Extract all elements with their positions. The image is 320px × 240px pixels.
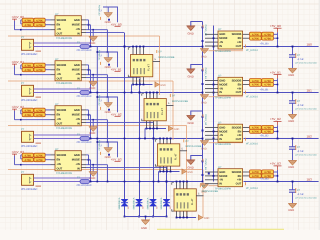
svg-text:-IN: -IN xyxy=(219,41,223,44)
junction xyxy=(202,181,204,183)
wire bottom bus xyxy=(160,171,180,173)
wire net B3 main horizontal bus xyxy=(34,181,203,183)
svg-text:IN: IN xyxy=(219,45,222,48)
wire IC row1 to row3 xyxy=(86,109,89,111)
svg-text:4.70K: 4.70K xyxy=(24,69,31,72)
svg-text:GND: GND xyxy=(288,209,294,212)
pins U3 xyxy=(51,109,56,111)
wire drop to next bus xyxy=(158,172,160,182)
pins U7 right xyxy=(243,127,250,129)
inductor ferrite FB4 xyxy=(80,180,90,184)
svg-text:OUT: OUT xyxy=(57,123,63,126)
svg-text:1B3: 1B3 xyxy=(307,177,313,181)
resistor R8 xyxy=(34,68,45,72)
wire opto upper pin xyxy=(34,134,91,136)
svg-text:PGND_B1: PGND_B1 xyxy=(204,68,207,80)
svg-text:MODE: MODE xyxy=(72,114,80,117)
resistor R32 xyxy=(262,174,274,178)
svg-text:GND: GND xyxy=(201,101,207,104)
svg-text:EN: EN xyxy=(57,24,61,27)
wire net B2 main horizontal bus xyxy=(34,138,203,140)
svg-text:4.70K: 4.70K xyxy=(252,84,259,87)
wire IC row1 to row3 xyxy=(86,154,89,156)
wire from port down to row3 line xyxy=(14,111,16,120)
svg-text:TPLM4200PA: TPLM4200PA xyxy=(56,82,72,85)
svg-text:4.70K: 4.70K xyxy=(36,24,43,27)
svg-text:+IN: +IN xyxy=(237,179,241,182)
svg-text:-IN: -IN xyxy=(219,179,223,182)
svg-text:IN: IN xyxy=(219,138,222,141)
svg-text:SMBJ24CA: SMBJ24CA xyxy=(160,197,163,209)
resistor R30 xyxy=(262,170,274,174)
svg-text:#PLU2014AC: #PLU2014AC xyxy=(21,188,37,191)
wire harness PGND0 horizontal xyxy=(8,35,160,37)
resistor R24 xyxy=(262,82,274,86)
svg-text:4.7uF: 4.7uF xyxy=(298,104,305,107)
wire L branch 3 xyxy=(97,97,117,112)
svg-text:TPU44.100PA: TPU44.100PA xyxy=(215,188,232,191)
svg-text:GND: GND xyxy=(188,75,194,79)
wire vertical net V2 xyxy=(139,79,141,217)
svg-text:GND: GND xyxy=(219,33,225,36)
wire net B1 main horizontal bus xyxy=(34,92,203,94)
svg-text:+5V_B3: +5V_B3 xyxy=(111,157,122,161)
pin square loop 2 xyxy=(108,64,110,66)
op-amp regulator U5 xyxy=(218,31,243,49)
wire drop to next bus xyxy=(144,129,146,139)
svg-text:MODE: MODE xyxy=(72,24,80,27)
ground sym tap 2 xyxy=(186,68,195,70)
svg-text:#FLU2014AC: #FLU2014AC xyxy=(77,95,92,98)
wire bottom bus xyxy=(133,84,153,86)
pins U6 right xyxy=(243,80,250,82)
svg-text:FL-4T: FL-4T xyxy=(175,153,178,160)
svg-text:GND: GND xyxy=(201,55,207,58)
svg-text:TPLM4200PA: TPLM4200PA xyxy=(56,37,72,40)
resistor R28 xyxy=(262,129,274,133)
ground sym below bus 1 xyxy=(200,48,209,50)
svg-text:P?: P? xyxy=(21,171,25,174)
ground sym harness 4 xyxy=(199,215,204,220)
ground sym C4 xyxy=(288,202,297,204)
wire vertical net V4 xyxy=(166,167,168,217)
ground sym harness 1 xyxy=(155,82,160,87)
bracket marks U10 xyxy=(142,94,144,96)
wire row3 drop to L branch xyxy=(107,30,109,52)
ground sym U2 xyxy=(89,81,98,83)
wire IC row3 long xyxy=(86,29,108,31)
op-amp regulator U6 xyxy=(218,77,243,95)
svg-text:#F_U2014: #F_U2014 xyxy=(246,96,258,99)
svg-text:U4P 16V50 R0.04 S0M 0805: U4P 16V50 R0.04 S0M 0805 xyxy=(295,108,317,111)
svg-text:SMBJ24CA: SMBJ24CA xyxy=(133,197,136,209)
wire harness PGND2 horizontal xyxy=(8,125,187,127)
wire harness right 1 xyxy=(209,50,244,52)
svg-text:+IN: +IN xyxy=(76,118,80,121)
resistor R16 xyxy=(34,158,45,162)
resistor R9 xyxy=(22,108,33,112)
svg-text:IN: IN xyxy=(77,168,80,171)
svg-text:+IN: +IN xyxy=(237,87,241,90)
svg-text:SDODB: SDODB xyxy=(232,171,242,174)
wire harness PGND3 horizontal xyxy=(8,169,203,171)
ground sym harness 3 xyxy=(182,169,187,174)
wire IC row3 long xyxy=(86,74,108,76)
svg-text:SMBJ24CA: SMBJ24CA xyxy=(147,197,150,209)
svg-text:+IN: +IN xyxy=(57,163,61,166)
svg-text:+5V_B1: +5V_B1 xyxy=(111,67,122,71)
svg-text:#PLU2014AC: #PLU2014AC xyxy=(21,53,37,56)
inductor ferrite FB2 xyxy=(80,91,90,95)
svg-text:U?: U? xyxy=(218,121,222,124)
wire gnd tap loop 2 xyxy=(191,65,203,69)
wire diode bottom bus xyxy=(125,216,167,218)
svg-text:GND: GND xyxy=(174,128,180,131)
wire net B0 right segment to edge xyxy=(244,46,320,48)
svg-text:TPU44.100PA: TPU44.100PA xyxy=(215,96,232,99)
svg-text:PGND_B1: PGND_B1 xyxy=(97,50,100,61)
pin square loop 1 xyxy=(108,19,110,21)
svg-text:4.70K: 4.70K xyxy=(36,65,43,68)
ground sym C2 xyxy=(288,113,297,115)
ground sym harness 2 xyxy=(169,126,174,131)
pins U6 left xyxy=(205,80,218,82)
pins U12 top xyxy=(176,182,178,189)
svg-text:P?: P? xyxy=(21,82,25,85)
wire row4 feed to vertical net V1 xyxy=(86,31,125,33)
ground sym loop 3 xyxy=(104,102,113,104)
op-amp regulator U1 xyxy=(55,16,81,36)
wire bottom bus xyxy=(177,217,197,219)
pins U9 bottom xyxy=(132,77,134,85)
op-amp regulator U7 xyxy=(218,124,243,142)
svg-text:FL-4T: FL-4T xyxy=(161,108,164,115)
wire opto lower pin (bus start) xyxy=(34,46,81,48)
wire harness right 4 xyxy=(209,185,244,187)
wire IC row2 to vertical xyxy=(86,24,91,26)
resistor R6 xyxy=(34,63,45,67)
wire vertical x=90.5 block 1 xyxy=(90,70,92,93)
svg-text:SDODB: SDODB xyxy=(232,126,242,129)
resistor R22 xyxy=(262,79,274,83)
junction dots top pins xyxy=(132,46,134,48)
wire opto lower pin (bus start) xyxy=(34,181,81,183)
svg-text:PGND_B0: PGND_B0 xyxy=(97,5,100,16)
svg-text:GND: GND xyxy=(219,126,225,129)
op-amp regulator U4 xyxy=(55,151,81,171)
bracket marks U12 xyxy=(172,183,174,185)
wire resistor rows to IC xyxy=(45,64,50,66)
svg-text:GND: GND xyxy=(188,32,194,36)
svg-text:OUT: OUT xyxy=(57,78,63,81)
svg-text:IN: IN xyxy=(219,91,222,94)
wire L branch 2 xyxy=(97,52,117,67)
wire net B0 main horizontal bus xyxy=(34,46,203,48)
ground sym U1 xyxy=(89,36,98,38)
junction dots top pins xyxy=(176,181,178,183)
svg-text:U?: U? xyxy=(55,58,59,61)
resistor R17 xyxy=(250,32,262,36)
wire vertical net VL x=97.3 xyxy=(96,47,98,182)
wire gnd stem xyxy=(92,30,94,37)
svg-text:+IN: +IN xyxy=(57,118,61,121)
svg-text:+5V_B2: +5V_B2 xyxy=(270,117,281,121)
svg-text:4.70K: 4.70K xyxy=(264,37,271,40)
svg-text:4.70K: 4.70K xyxy=(24,114,31,117)
svg-text:#PLU2014AC: #PLU2014AC xyxy=(21,99,37,102)
svg-text:GND: GND xyxy=(160,84,166,87)
svg-text:GND: GND xyxy=(288,74,294,77)
resistor R26 xyxy=(262,125,274,129)
capacitor C2 xyxy=(292,93,294,101)
pin squares tap 1 xyxy=(202,26,204,28)
svg-text:4.7uF: 4.7uF xyxy=(298,58,305,61)
inductor ferrite FB1 xyxy=(80,45,90,49)
svg-text:SDODB: SDODB xyxy=(57,64,67,67)
svg-text:+5V_B2: +5V_B2 xyxy=(260,135,270,138)
svg-text:GND: GND xyxy=(89,132,95,135)
svg-text:TPLM4200PA: TPLM4200PA xyxy=(56,172,72,175)
highlight band bottom xyxy=(157,229,284,230)
wire resistor rows to IC xyxy=(45,154,50,156)
svg-text:4.70K: 4.70K xyxy=(24,24,31,27)
svg-text:#F_U2014: #F_U2014 xyxy=(246,49,258,52)
junction dots top pins xyxy=(146,92,148,94)
svg-text:IN: IN xyxy=(219,183,222,186)
resistor R10 xyxy=(34,108,45,112)
wire gnd tap loop 4 xyxy=(191,156,203,160)
svg-text:EN: EN xyxy=(57,69,61,72)
pins U12 bottom xyxy=(176,211,178,217)
wire harness PGND0 vertical xyxy=(159,36,161,95)
resistor R11 xyxy=(22,113,33,117)
pin 5 right U10 xyxy=(166,105,174,107)
pin 5 right U12 xyxy=(196,195,204,197)
svg-text:+5V_B3: +5V_B3 xyxy=(260,178,270,181)
svg-text:GND: GND xyxy=(105,21,111,24)
svg-text:U?: U? xyxy=(55,103,59,106)
wire harness PGND1 horizontal xyxy=(8,80,173,82)
resistor R25 xyxy=(250,125,262,129)
svg-text:OUT: OUT xyxy=(236,138,242,141)
op-amp regulator U8 xyxy=(218,169,243,187)
transistor opto P2 xyxy=(22,85,34,96)
wire opto lower pin (bus start) xyxy=(34,138,81,140)
svg-text:+IN: +IN xyxy=(76,73,80,76)
svg-text:4.70K: 4.70K xyxy=(36,114,43,117)
svg-text:GND: GND xyxy=(105,111,111,114)
ground sym tap 3 xyxy=(186,114,195,116)
pins U11 bottom xyxy=(159,166,161,171)
svg-text:+5V_B0: +5V_B0 xyxy=(270,24,281,28)
resistor R23 xyxy=(250,82,262,86)
pins U5 right xyxy=(243,33,250,35)
diode TVS D5 xyxy=(121,199,128,206)
diode TVS D8 xyxy=(163,199,170,206)
svg-text:GND: GND xyxy=(204,217,210,220)
wire opto upper pin xyxy=(34,42,91,44)
resistor R27 xyxy=(250,129,262,133)
wire IC row2 to vertical xyxy=(86,114,91,116)
svg-text:+5V_B3: +5V_B3 xyxy=(270,162,281,166)
pin squares tap 4 xyxy=(202,160,204,162)
pin squares tap 3 xyxy=(202,116,204,118)
resistor R4 xyxy=(34,23,45,27)
svg-text:SDODB: SDODB xyxy=(232,33,242,36)
pins U7 left xyxy=(205,127,218,129)
svg-text:4.70K: 4.70K xyxy=(36,110,43,113)
svg-text:PGND_B3: PGND_B3 xyxy=(97,140,100,151)
svg-text:OUT: OUT xyxy=(236,91,242,94)
svg-text:IN: IN xyxy=(77,78,80,81)
pins U5 left xyxy=(205,33,218,35)
svg-text:-IN: -IN xyxy=(219,87,223,90)
svg-text:MODE: MODE xyxy=(219,83,227,86)
svg-text:+IN: +IN xyxy=(76,28,80,31)
svg-text:FL-4T: FL-4T xyxy=(191,198,194,205)
svg-text:4.70K: 4.70K xyxy=(24,159,31,162)
svg-text:1B0: 1B0 xyxy=(307,42,313,46)
svg-text:#PLU2014AC: #PLU2014AC xyxy=(21,145,37,148)
svg-text:GND: GND xyxy=(201,147,207,150)
wire vertical net VR1 x=202.5 xyxy=(202,22,204,182)
svg-text:+5V_B0: +5V_B0 xyxy=(111,22,122,26)
ground sym below bus 2 xyxy=(200,94,209,96)
junction xyxy=(202,92,204,94)
junction xyxy=(202,46,204,48)
svg-text:TPU44.100PA: TPU44.100PA xyxy=(215,50,232,53)
pin square loop 3 xyxy=(108,109,110,111)
resistor R29 xyxy=(250,170,262,174)
wire harness right 2 xyxy=(209,96,244,98)
svg-text:PGND_B2: PGND_B2 xyxy=(97,95,100,106)
capacitor C4 xyxy=(292,182,294,190)
resistor R1 xyxy=(22,18,33,22)
ground sym loop 4 xyxy=(104,147,113,149)
wire opto upper pin xyxy=(34,88,91,90)
wire harness right 3 xyxy=(209,142,244,144)
wire resistor rows to IC xyxy=(45,109,50,111)
svg-text:TPU44.100PA: TPU44.100PA xyxy=(215,143,232,146)
resistor R18 xyxy=(262,32,274,36)
svg-text:GND: GND xyxy=(219,80,225,83)
pins U11 top xyxy=(159,139,161,144)
svg-text:MODE: MODE xyxy=(219,130,227,133)
diode TVS D7 xyxy=(150,199,157,206)
wire gnd stem xyxy=(92,165,94,172)
svg-text:+IN: +IN xyxy=(237,41,241,44)
wire harness PGND3 vertical xyxy=(202,170,204,218)
resistor R2 xyxy=(34,18,45,22)
transistor opto P1 xyxy=(22,39,34,50)
wire row4 feed to vertical net V4 xyxy=(86,166,167,168)
ground sym C3 xyxy=(288,159,297,161)
svg-text:U?: U? xyxy=(218,28,222,31)
svg-text:EN: EN xyxy=(57,159,61,162)
pin square mid-right xyxy=(208,173,210,175)
svg-text:4.70K: 4.70K xyxy=(36,20,43,23)
svg-text:#F_U2014: #F_U2014 xyxy=(246,187,258,190)
svg-text:EN: EN xyxy=(238,83,242,86)
resistor R14 xyxy=(34,153,45,157)
svg-text:SDODB: SDODB xyxy=(57,109,67,112)
svg-text:GND: GND xyxy=(74,19,80,22)
wire IC row2 to vertical xyxy=(86,159,91,161)
resistor R19 xyxy=(250,36,262,40)
bracket marks U11 xyxy=(155,140,157,142)
wire IC row1 to row3 xyxy=(86,19,89,21)
svg-text:4.70K: 4.70K xyxy=(36,159,43,162)
wire vertical x=90.5 block 0 xyxy=(90,25,92,47)
svg-text:+IN: +IN xyxy=(76,163,80,166)
svg-text:OUT: OUT xyxy=(57,168,63,171)
ground sym C1 xyxy=(288,67,297,69)
wire gnd stem xyxy=(92,120,94,127)
wire from port down to row3 line xyxy=(14,66,16,75)
svg-text:4.70K: 4.70K xyxy=(36,69,43,72)
pins U10 bottom xyxy=(146,121,148,129)
op-amp regulator U2 xyxy=(55,61,81,81)
wire row4 feed to vertical net V2 xyxy=(86,76,140,78)
svg-text:GND: GND xyxy=(188,166,194,170)
svg-text:4.70K: 4.70K xyxy=(264,84,271,87)
svg-text:+IN: +IN xyxy=(57,73,61,76)
wire drop to next bus xyxy=(131,85,133,93)
pins U1 xyxy=(51,19,56,21)
svg-text:PGND_B3: PGND_B3 xyxy=(204,159,207,171)
svg-text:SDODB: SDODB xyxy=(57,19,67,22)
wire gnd tap loop 1 xyxy=(191,22,203,26)
wire vertical net VR2 x=213 xyxy=(213,26,215,182)
wire vertical x=90.5 block 3 xyxy=(90,160,92,182)
svg-text:U?: U? xyxy=(218,75,222,78)
pins U8 left xyxy=(205,171,218,173)
ground sym tap 1 xyxy=(186,25,195,27)
svg-text:IN: IN xyxy=(77,123,80,126)
svg-text:+5V_B2: +5V_B2 xyxy=(111,112,122,116)
svg-text:GND: GND xyxy=(74,64,80,67)
svg-text:OUT: OUT xyxy=(57,33,63,36)
transistor opto P3 xyxy=(22,131,34,142)
wire vertical net V3 xyxy=(153,123,155,217)
svg-text:U4P 16V50 R0.04 S0M 0805: U4P 16V50 R0.04 S0M 0805 xyxy=(295,154,317,157)
svg-text:#FLU2014AC: #FLU2014AC xyxy=(77,141,92,144)
wire resistor rows to bus xyxy=(274,127,278,129)
op-amp array U12 FL-4T xyxy=(174,189,196,211)
wire IC row3 long xyxy=(86,164,108,166)
svg-text:4.70K: 4.70K xyxy=(36,155,43,158)
pin squares tap 2 xyxy=(202,69,204,71)
svg-text:SDODB: SDODB xyxy=(232,80,242,83)
capacitor C3 xyxy=(292,139,294,147)
wire L branch 4 xyxy=(97,142,117,157)
svg-text:EN: EN xyxy=(238,37,242,40)
pins U8 right xyxy=(243,171,250,173)
svg-text:4.7uF: 4.7uF xyxy=(298,193,305,196)
svg-text:EN: EN xyxy=(57,114,61,117)
ground sym diode row xyxy=(141,219,150,221)
svg-text:4.70K: 4.70K xyxy=(24,20,31,23)
wire gnd tap loop 3 xyxy=(191,111,203,115)
resistor R31 xyxy=(250,174,262,178)
junction dots on buses xyxy=(124,46,126,48)
wire IC row3 long xyxy=(86,119,108,121)
pins U10 top xyxy=(146,93,148,99)
svg-text:MODE: MODE xyxy=(219,175,227,178)
svg-text:FL-4T: FL-4T xyxy=(148,64,151,71)
svg-text:4.70K: 4.70K xyxy=(24,155,31,158)
pin square loop 4 xyxy=(108,154,110,156)
